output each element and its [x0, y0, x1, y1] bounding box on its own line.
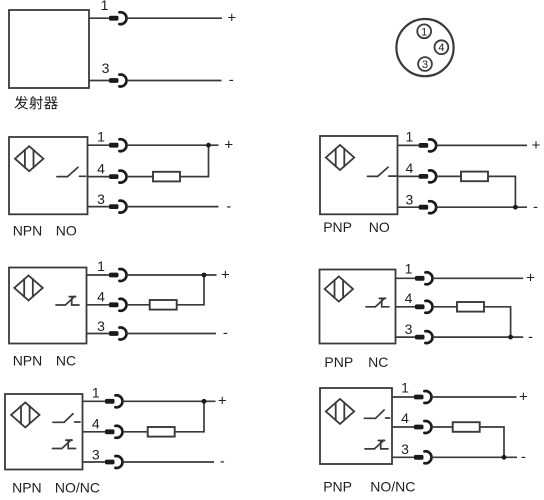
wire pin3 to supply [127, 333, 217, 335]
svg-text:1: 1 [406, 129, 414, 145]
connector plug pin 1 [109, 12, 126, 24]
NC output contact [53, 440, 76, 449]
wire pin4 box to plug [392, 426, 415, 428]
connector plug pin 4 [419, 170, 436, 182]
svg-text:+: + [221, 266, 230, 283]
svg-text:-: - [226, 198, 231, 215]
PNP NO/NC sensor box [320, 388, 392, 464]
connector pin 4 circle [435, 40, 449, 54]
connector plug pin 3 [109, 75, 126, 87]
riser wire resistor to +V rail [208, 145, 210, 176]
wire pin3 from box to plug [89, 80, 110, 82]
sensor symbol (diamond) [15, 146, 43, 171]
wire pin4 to load resistor [127, 176, 154, 178]
wire pin1 box to plug [83, 400, 106, 402]
wire pin4 to load resistor [436, 175, 461, 177]
sensor symbol (diamond) [326, 399, 354, 424]
wire resistor to junction riser [175, 431, 205, 433]
svg-text:3: 3 [405, 321, 413, 337]
svg-text:4: 4 [97, 288, 105, 304]
wire pin1 box to plug [392, 396, 415, 398]
drop wire resistor to 0V rail [510, 307, 512, 337]
svg-text:3: 3 [401, 441, 409, 457]
wire pin3 to supply [432, 456, 518, 458]
connector plug pin 3 [414, 451, 431, 463]
sensor symbol (diamond) [325, 277, 353, 302]
connector plug pin 4 [105, 426, 122, 438]
svg-text:PNP: PNP [324, 354, 353, 370]
connector plug pin 1 [109, 269, 126, 281]
connector plug pin 3 [415, 331, 432, 343]
svg-text:1: 1 [97, 258, 105, 274]
connector plug pin 1 [414, 391, 431, 403]
svg-text:1: 1 [92, 384, 100, 400]
wire resistor to junction riser [180, 176, 209, 178]
PNP NC sensor box [320, 270, 396, 344]
svg-text:PNP: PNP [323, 479, 352, 495]
load resistor RL [461, 172, 488, 182]
load resistor RL [457, 302, 484, 312]
svg-text:4: 4 [92, 415, 100, 431]
svg-text:NC: NC [368, 354, 388, 370]
svg-text:1: 1 [405, 261, 413, 277]
svg-text:4: 4 [405, 290, 413, 306]
svg-text:NO/NC: NO/NC [55, 480, 100, 496]
wire pin4 to load resistor [123, 431, 148, 433]
svg-text:3: 3 [97, 318, 105, 334]
svg-text:NPN: NPN [13, 222, 43, 238]
wire pin4 to load resistor [432, 426, 453, 428]
svg-text:PNP: PNP [323, 219, 352, 235]
svg-text:+: + [218, 393, 227, 410]
svg-text:+: + [224, 137, 233, 154]
NO output contact [364, 410, 389, 418]
sensor symbol (diamond) [11, 402, 39, 427]
svg-text:-: - [533, 198, 538, 215]
svg-text:3: 3 [102, 60, 110, 76]
wire pin3 to supply [123, 461, 215, 463]
junction node on pin1 rail [206, 143, 211, 148]
wire resistor to junction riser [484, 306, 511, 308]
connector plug pin 1 [415, 272, 432, 284]
NO output contact [53, 414, 80, 423]
drop wire resistor to 0V rail [503, 427, 505, 457]
svg-text:NO: NO [56, 222, 77, 238]
wire pin1 to plus [127, 17, 223, 19]
wire pin4 box to plug [396, 306, 416, 308]
sensor symbol (diamond) [14, 275, 42, 300]
connector plug pin 3 [109, 201, 126, 213]
svg-text:NPN: NPN [13, 353, 43, 369]
connector pin 3 circle [418, 57, 432, 71]
svg-text:+: + [227, 10, 236, 27]
riser wire resistor to +V rail [203, 401, 205, 432]
svg-text:4: 4 [97, 160, 105, 176]
connector plug pin 4 [414, 421, 431, 433]
load resistor RL [150, 300, 177, 310]
load resistor RL [453, 422, 480, 432]
wire resistor to junction riser [488, 175, 516, 177]
sensor symbol (diamond) [326, 145, 354, 170]
svg-text:NC: NC [56, 353, 76, 369]
label 发射器 (transmitter) [14, 96, 57, 110]
wire pin3 to supply [436, 206, 527, 208]
wire pin3 box to plug [83, 461, 106, 463]
svg-text:3: 3 [406, 192, 414, 208]
wire pin1 to supply [127, 144, 219, 146]
connector plug pin 3 [109, 328, 126, 340]
wire resistor to junction riser [177, 304, 205, 306]
NO output contact [368, 167, 397, 176]
wire pin1 box to plug [88, 144, 110, 146]
riser wire resistor to +V rail [203, 275, 205, 305]
svg-text:4: 4 [406, 160, 414, 176]
connector face outer circle [396, 19, 453, 76]
svg-text:-: - [521, 449, 526, 466]
svg-text:1: 1 [421, 26, 427, 38]
wire pin3 to supply [433, 336, 524, 338]
wire pin1 box to plug [396, 277, 416, 279]
wire pin4 box to plug [87, 304, 110, 306]
svg-text:-: - [223, 325, 228, 342]
NC output contact [366, 298, 389, 307]
junction node on pin1 rail [202, 273, 207, 278]
svg-text:-: - [229, 72, 234, 89]
wire pin4 box to plug [88, 176, 110, 178]
connector plug pin 1 [109, 139, 126, 151]
wire pin1 to supply [432, 396, 517, 398]
svg-text:-: - [220, 453, 225, 470]
wire pin1 box to plug [398, 144, 420, 146]
wire pin3 box to plug [392, 456, 415, 458]
svg-text:+: + [519, 388, 528, 405]
svg-text:1: 1 [401, 380, 409, 396]
connector plug pin 1 [105, 395, 122, 407]
svg-text:+: + [532, 137, 541, 154]
NPN NC sensor box [9, 268, 87, 344]
svg-text:4: 4 [401, 410, 409, 426]
wire pin4 to load resistor [433, 306, 458, 308]
wire pin4 box to plug [83, 431, 106, 433]
transmitter box 发射器 [9, 10, 89, 88]
connector plug pin 4 [109, 171, 126, 183]
wire pin3 to supply [127, 206, 219, 208]
NC output contact [56, 296, 79, 305]
svg-text:3: 3 [92, 446, 100, 462]
svg-text:NO: NO [369, 219, 390, 235]
wire pin3 box to plug [87, 333, 110, 335]
wire pin1 box to plug [87, 274, 110, 276]
junction node on pin3 rail [508, 335, 513, 340]
wire pin3 to minus [127, 80, 222, 82]
svg-text:4: 4 [438, 42, 444, 54]
NO output contact [57, 167, 86, 176]
wire resistor to junction riser [480, 426, 505, 428]
NPN NO/NC sensor box [5, 394, 83, 470]
svg-text:NPN: NPN [12, 480, 42, 496]
svg-text:NO/NC: NO/NC [370, 479, 415, 495]
svg-text:3: 3 [97, 191, 105, 207]
wire pin1 to supply [433, 277, 524, 279]
drop wire resistor to 0V rail [514, 176, 516, 207]
junction node on pin1 rail [202, 399, 207, 404]
NC output contact [365, 440, 388, 449]
connector plug pin 3 [105, 456, 122, 468]
wire pin1 from box to plug [89, 17, 110, 19]
wire pin4 to load resistor [127, 304, 150, 306]
load resistor RL [148, 427, 175, 437]
svg-text:-: - [528, 328, 533, 345]
wire pin1 to supply [127, 274, 217, 276]
connector plug pin 4 [109, 299, 126, 311]
wire pin3 box to plug [88, 206, 110, 208]
wire pin3 box to plug [396, 336, 416, 338]
svg-text:3: 3 [422, 59, 428, 71]
NPN NO sensor box [9, 137, 88, 214]
wire pin1 to supply [436, 144, 527, 146]
svg-text:+: + [526, 270, 535, 287]
wire pin1 to supply [123, 400, 216, 402]
load resistor RL [153, 172, 180, 182]
PNP NO sensor box [320, 136, 398, 214]
connector plug pin 4 [415, 301, 432, 313]
connector plug pin 1 [419, 139, 436, 151]
svg-text:1: 1 [97, 128, 105, 144]
junction node on pin3 rail [513, 205, 518, 210]
junction node on pin3 rail [502, 455, 507, 460]
wire pin3 box to plug [398, 206, 420, 208]
connector plug pin 3 [419, 201, 436, 213]
connector pin 1 circle [417, 24, 431, 38]
wire pin4 box to plug [398, 175, 420, 177]
svg-text:1: 1 [101, 0, 109, 13]
